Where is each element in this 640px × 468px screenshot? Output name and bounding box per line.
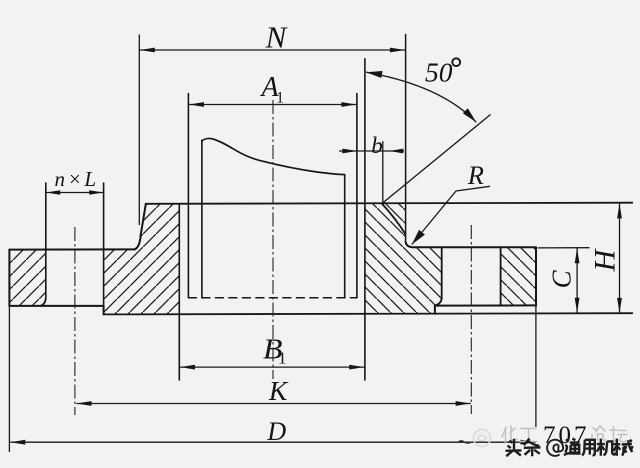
C arrows	[575, 248, 580, 263]
dimension H line	[619, 203, 621, 313]
pipe outer right wall + A1 right extension + b left extension	[356, 94, 358, 298]
angle arc 50 degrees	[366, 72, 476, 122]
dimension B1 line	[179, 366, 364, 368]
char 条	[524, 439, 541, 457]
svg-text:b: b	[371, 133, 383, 158]
faint char 坛	[609, 427, 627, 442]
bore right wall + b right extension + B1 right extension	[364, 59, 366, 380]
dimension C line	[576, 248, 578, 313]
pipe inner right wall	[344, 175, 346, 298]
flange left outer edge	[8, 250, 10, 306]
flange back face left	[9, 305, 103, 307]
char 械	[613, 439, 632, 456]
faint watermark 化工707论坛	[458, 426, 537, 447]
dimension n x L line	[46, 192, 104, 194]
flange top face left	[9, 248, 134, 250]
right bolt hole centerline + K extension	[470, 225, 472, 414]
hub right fillet R	[406, 242, 413, 247]
dimension b line	[339, 150, 404, 152]
dimension K line	[76, 403, 471, 405]
50 degree groove line	[382, 115, 490, 204]
raised face bottom + C/H bottom extension	[104, 313, 633, 314]
hatch right middle block + hub	[365, 203, 442, 314]
char @	[547, 440, 563, 456]
hatch left inner block + hub	[104, 204, 180, 315]
svg-text:N: N	[265, 20, 289, 55]
b arrows	[342, 149, 357, 154]
faint logo circle	[474, 430, 491, 447]
centerlines	[75, 100, 471, 415]
hatch right outer block	[501, 247, 536, 305]
C top extension line	[538, 247, 590, 249]
faint char 化	[502, 426, 517, 443]
char 用	[582, 440, 595, 456]
faint char 工	[520, 429, 537, 442]
hatch left outer block	[9, 250, 45, 306]
faint char 论	[592, 426, 606, 442]
dark watermark 头条 @通用机械	[506, 438, 633, 456]
pipe break curve	[202, 139, 345, 175]
svg-text:1: 1	[276, 90, 284, 107]
weld bevel line	[382, 204, 405, 234]
svg-text:50: 50	[425, 57, 453, 88]
char 通	[564, 438, 581, 455]
char 机	[597, 439, 616, 456]
right bolt hole left edge	[441, 247, 443, 298]
svg-text:R: R	[467, 160, 484, 190]
pipe inner left wall	[201, 140, 203, 297]
raised face step right	[434, 306, 436, 314]
A1 arrows	[189, 102, 204, 107]
right bolt hole left edge foot	[435, 299, 442, 306]
svg-text:H: H	[588, 247, 621, 272]
svg-text:K: K	[268, 375, 289, 406]
D left extension line	[8, 306, 10, 452]
H arrows	[617, 203, 622, 218]
raised face step left	[103, 306, 105, 315]
left bolt hole left edge foot	[41, 299, 46, 306]
R leader arrow	[412, 230, 425, 245]
N left extension line	[138, 35, 140, 226]
hub top face + H top extension	[146, 203, 633, 204]
arc arrow bottom	[463, 108, 477, 122]
right bolt hole right edge	[500, 247, 502, 305]
hub right edge + N right extension line	[405, 35, 407, 242]
left bolt hole right edge + n x L extension + step	[103, 183, 105, 306]
hub left edge taper	[141, 204, 146, 235]
char 头	[506, 439, 522, 456]
bore left wall + B1 left extension	[178, 204, 180, 380]
main vertical centerline	[272, 100, 274, 379]
svg-text:n×L: n×L	[55, 167, 99, 191]
svg-text:1: 1	[278, 349, 287, 368]
flange back face right	[435, 304, 536, 306]
D right extension line	[535, 306, 537, 428]
B1 arrows	[180, 365, 195, 370]
arc arrow top	[366, 71, 382, 78]
dimension A1 line	[188, 104, 357, 106]
pipe end hidden line (dashed)	[188, 297, 357, 299]
K arrows	[77, 401, 92, 406]
N arrows	[140, 48, 155, 53]
R leader line	[412, 186, 490, 244]
hub left fillet R	[135, 235, 141, 249]
flange right outer edge	[535, 247, 537, 305]
D arrows	[10, 440, 25, 445]
svg-text:C: C	[547, 269, 577, 288]
svg-text:D: D	[266, 417, 286, 446]
left bolt hole centerline + K extension	[74, 227, 76, 415]
50 degree vertex vertical line	[382, 142, 384, 204]
n x L arrows	[46, 190, 60, 195]
dimension D line	[10, 441, 535, 443]
pipe outer left wall + A1 left extension	[187, 94, 189, 298]
left bolt hole left edge + n x L extension	[45, 183, 47, 299]
wobble marks on D line	[458, 441, 471, 443]
dimension N line	[139, 49, 405, 51]
flange top face right	[412, 246, 536, 248]
